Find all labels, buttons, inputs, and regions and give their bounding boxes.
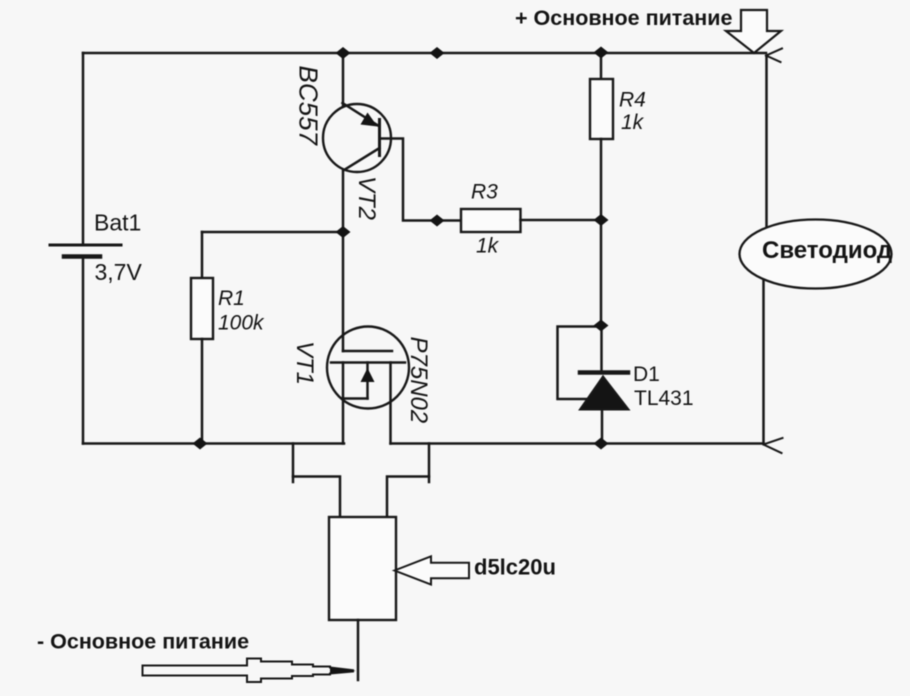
svg-text:1k: 1k — [476, 235, 500, 258]
wire D1 anode lead — [601, 410, 604, 444]
wire R3 right lead — [521, 219, 602, 222]
wire R1 top lead — [201, 232, 204, 278]
svg-text:D1: D1 — [633, 363, 660, 386]
wire right drop to shunt box — [387, 444, 429, 518]
node top rail / VT2 emitter — [336, 47, 351, 59]
svg-text:- Основное питание: - Основное питание — [37, 630, 249, 654]
d5lc20u arrow — [395, 556, 470, 584]
VT1 bottom horizontal — [343, 397, 368, 400]
battery Bat1 — [50, 245, 121, 257]
wire right rail lower (LED oval to bottom rail) — [762, 278, 765, 444]
probe arrow (- supply) — [143, 659, 354, 683]
node R3/R4 junction — [594, 214, 609, 226]
wire right drop tick — [428, 477, 431, 483]
wire TL431 ref bracket — [558, 327, 602, 400]
svg-text:VT1: VT1 — [291, 341, 318, 385]
connector chevron top right — [766, 49, 782, 56]
wire left rail lower (battery to bottom rail) — [82, 258, 85, 444]
wire VT1 gate lead — [342, 232, 345, 351]
VT1 source vertical — [342, 363, 345, 399]
svg-text:100k: 100k — [218, 312, 265, 335]
VT1 drain lead — [389, 363, 392, 444]
svg-text:1k: 1k — [621, 111, 645, 134]
VT1 body vertical — [366, 363, 369, 399]
wire VT1 source lead — [342, 399, 345, 444]
wire node R4/R3 down to D1 — [600, 220, 603, 325]
wire left drop tick — [292, 477, 295, 483]
connector chevron bottom right — [764, 438, 783, 445]
VT2 emitter arrow — [361, 113, 378, 127]
svg-text:Bat1: Bat1 — [94, 210, 141, 236]
wire shunt box bottom lead — [357, 620, 360, 680]
shunt box (protection module) — [329, 517, 396, 620]
wire bottom right rail — [391, 442, 764, 445]
node base wire x437 — [430, 215, 445, 227]
probe tip fill — [330, 667, 356, 674]
node top rail / R4 — [594, 47, 609, 59]
wire R4 bottom lead to node — [600, 139, 603, 220]
VT1 gate bar — [343, 350, 392, 353]
resistor R4 — [590, 79, 613, 139]
svg-text:3,7V: 3,7V — [95, 259, 143, 285]
svg-text:R4: R4 — [619, 89, 646, 112]
VT1 channel bar — [331, 361, 405, 364]
svg-text:R1: R1 — [218, 287, 245, 310]
svg-text:R3: R3 — [471, 181, 498, 204]
wire R1 bottom lead — [201, 339, 204, 444]
node A (R1/VT2 collector/VT1 gate) — [336, 226, 351, 238]
diode D1 TL431 triangle — [580, 377, 629, 410]
wire top rail — [83, 52, 766, 55]
svg-text:Светодиод: Светодиод — [762, 237, 892, 264]
node top rail x437 — [430, 47, 445, 59]
node D1 anode / bottom rail — [594, 438, 609, 450]
svg-text:d5lc20u: d5lc20u — [474, 555, 556, 580]
resistor R1 — [191, 278, 213, 339]
VT2 emitter diagonal — [343, 103, 379, 126]
resistor R3 — [461, 209, 521, 232]
wire right rail upper (to LED oval) — [765, 57, 768, 227]
wire VT2 collector lead to node — [342, 170, 345, 232]
wire VT2 base lead to R3 — [382, 139, 462, 221]
LED oval Светодиод — [740, 220, 892, 289]
VT1 body diode arrow — [361, 368, 375, 382]
svg-text:P75N02: P75N02 — [405, 337, 432, 424]
node D1 cathode junction — [594, 320, 609, 332]
node R1 bottom / bottom rail — [193, 438, 208, 450]
wire left rail upper (to battery) — [82, 53, 85, 244]
diode D1 TL431 cathode bar — [580, 370, 628, 375]
wire R4 top lead — [600, 53, 603, 79]
svg-text:TL431: TL431 — [634, 387, 694, 410]
svg-text:BC557: BC557 — [293, 66, 323, 147]
VT2 collector diagonal — [344, 148, 380, 170]
wire R1 top to node A — [202, 231, 343, 234]
svg-text:VT2: VT2 — [353, 176, 380, 220]
transistor VT1 P75N02 circle — [327, 327, 409, 409]
transistor Q VT2 BC557 circle — [323, 104, 391, 172]
wire D1 cathode lead — [600, 325, 603, 372]
wire VT2 emitter lead — [342, 53, 345, 106]
wire bottom left rail — [83, 442, 344, 445]
VT2 base bar — [378, 120, 381, 156]
svg-text:+ Основное питание: + Основное питание — [515, 6, 732, 30]
power arrow (+ supply) — [726, 10, 781, 53]
wire left drop to shunt box — [293, 444, 340, 518]
